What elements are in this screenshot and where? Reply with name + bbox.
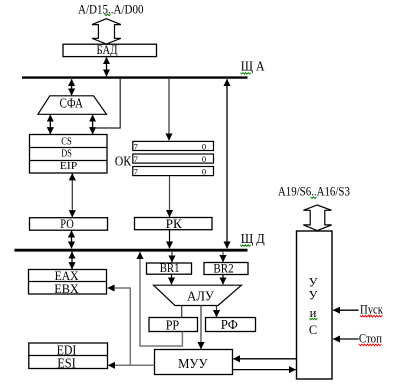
wire АЛУ to РР (181, 306, 183, 318)
svg-text:У: У (309, 289, 318, 303)
double arrow bus ЩД - EAX (71, 252, 73, 269)
bus ЩА (22, 76, 248, 78)
wire АЛУ to РФ (216, 306, 218, 317)
double arrow РО - bus ЩД (71, 231, 73, 249)
box РР (149, 318, 198, 332)
svg-text:7: 7 (134, 154, 138, 164)
svg-text:РФ: РФ (221, 317, 238, 332)
svg-text:Пуск: Пуск (360, 302, 384, 317)
wire bus ЩД to BR1 (171, 252, 173, 262)
wire АЛУ to МУУ (200, 306, 202, 349)
svg-text:CS: CS (61, 135, 72, 147)
spellcheck squiggle under dots (105, 14, 111, 16)
green squiggle under и (310, 318, 318, 320)
hollow double arrow A/D bus (92, 19, 121, 44)
box УУиС (297, 231, 333, 379)
wire МУУ to ESI (with branch to EBX) (108, 364, 154, 366)
wire bus ЩД to BR2 (222, 252, 224, 262)
wire bus ЩА - bus ЩД vertical link (226, 79, 228, 248)
svg-text:БАД: БАД (97, 42, 118, 57)
svg-text:DS: DS (61, 147, 72, 159)
green squiggle under Щ (240, 245, 250, 247)
red squiggle under Стоп (359, 344, 381, 346)
double arrow EIP - РО (71, 174, 73, 218)
svg-text:У: У (309, 276, 318, 290)
bus ЩД (14, 249, 247, 252)
svg-text:A19/S6..A16/S3: A19/S6..A16/S3 (278, 184, 350, 198)
box BR1 (147, 263, 192, 274)
green squiggle under dots (311, 197, 317, 199)
wire branch up to EBX (108, 288, 131, 365)
wire Стоп input (333, 338, 358, 340)
svg-text:С: С (309, 323, 317, 337)
wire ОК to РК (169, 176, 171, 217)
svg-text:РО: РО (60, 217, 74, 231)
wire МУУ to УУиС (233, 369, 296, 371)
wire Пуск input (333, 309, 358, 311)
svg-text:и: и (310, 306, 317, 320)
svg-text:АЛУ: АЛУ (187, 289, 214, 304)
svg-text:EIP: EIP (60, 160, 78, 172)
svg-text:ESI: ESI (57, 355, 76, 370)
svg-text:0: 0 (202, 141, 206, 151)
box BR2 (204, 263, 248, 275)
ОК register 3 (133, 167, 214, 176)
wire BR1 to АЛУ (171, 275, 173, 285)
wire BR2 to АЛУ (222, 275, 224, 284)
svg-text:7: 7 (134, 141, 138, 151)
svg-text:МУУ: МУУ (178, 356, 208, 371)
double arrow БАД - bus ЩА (106, 57, 108, 76)
double arrow СФА - segment stack (right) (92, 115, 94, 134)
svg-text:ОК: ОК (115, 153, 132, 168)
box МУУ (155, 350, 233, 375)
hollow double arrow A19/S6 (303, 205, 331, 231)
svg-text:Щ А: Щ А (241, 59, 265, 74)
double arrow СФА - segment stack (left) (49, 115, 51, 134)
box БАД (63, 44, 157, 56)
wire УУиС to МУУ (233, 358, 296, 360)
wire РК to bus ЩД (169, 230, 171, 248)
trapezoid СФА (38, 96, 107, 115)
box РФ (206, 318, 256, 332)
register pair EDI/ESI (29, 343, 108, 369)
svg-text:BR2: BR2 (213, 260, 233, 275)
svg-text:BR1: BR1 (160, 260, 180, 275)
svg-text:7: 7 (134, 167, 138, 177)
svg-text:Стоп: Стоп (359, 331, 382, 346)
svg-text:Щ Д: Щ Д (241, 231, 265, 246)
svg-text:0: 0 (202, 154, 206, 164)
register stack CS/DS/EIP (30, 135, 108, 174)
box РО (30, 218, 108, 231)
svg-text:РР: РР (166, 318, 180, 333)
green squiggle under Щ (241, 73, 251, 75)
wire bus ЩА to ОК register (168, 79, 170, 141)
register pair EAX/EBX (29, 270, 107, 295)
wire branch from bus ЩА down to stack arrow (93, 79, 120, 128)
wire РР to bus ЩД (feedback) (140, 252, 182, 346)
svg-text:СФА: СФА (60, 95, 84, 110)
ОК register 2 (133, 154, 214, 163)
red squiggle under Пуск (360, 315, 382, 317)
ОК register 1 (133, 141, 214, 150)
svg-text:РК: РК (166, 217, 183, 231)
double arrow bus ЩА - СФА (71, 79, 73, 95)
svg-text:EBX: EBX (54, 281, 79, 296)
trapezoid АЛУ (154, 285, 242, 305)
box РК (135, 218, 213, 230)
svg-text:0: 0 (202, 167, 206, 177)
